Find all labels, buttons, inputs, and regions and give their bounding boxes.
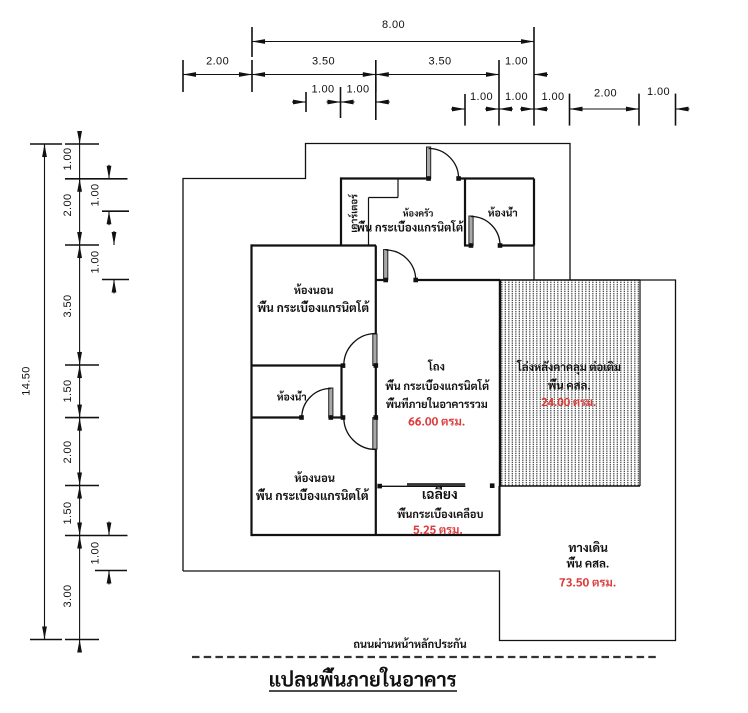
bath1 door latch dot — [498, 243, 503, 248]
hall west wall upper — [375, 246, 377, 335]
bedroom2 door swing — [344, 418, 376, 450]
kitchen entry door leaf — [427, 147, 431, 179]
dimension row 8.00 — [252, 41, 534, 43]
svg-text:1.00: 1.00 — [647, 86, 670, 98]
bath1 east wall — [533, 179, 535, 246]
text: kitchen floor label — [357, 220, 464, 232]
west exterior wall — [250, 244, 252, 536]
text: porch roof value — [542, 398, 596, 406]
bath2 door hinge dot — [329, 415, 334, 420]
bedroom1 door swing — [344, 334, 376, 366]
text: hall area label — [386, 397, 487, 408]
outer walkway boundary top-left — [183, 144, 570, 572]
bath2 door latch dot — [299, 415, 304, 420]
counter edge horizontal — [369, 197, 399, 199]
kitchen/bath1 divider wall — [464, 179, 466, 246]
text: hall label — [428, 359, 445, 370]
text: bedroom1 label — [294, 283, 333, 294]
bath2 door leaf — [329, 388, 333, 418]
text: hall floor label — [386, 379, 490, 390]
kitchen entry door swing — [429, 149, 459, 179]
bedroom1 door leaf — [373, 334, 377, 366]
svg-text:1.50: 1.50 — [62, 501, 74, 524]
text: counter label — [348, 194, 358, 232]
svg-text:14.50: 14.50 — [20, 366, 32, 396]
svg-text:2.00: 2.00 — [62, 193, 74, 216]
terrace east wall — [498, 486, 500, 536]
svg-text:2.00: 2.00 — [594, 88, 617, 100]
hall west wall lower — [375, 449, 377, 536]
outer walkway boundary right/bottom — [183, 280, 676, 641]
svg-text:8.00: 8.00 — [382, 19, 405, 31]
kitchen door hinge dot — [426, 176, 431, 181]
svg-text:2.00: 2.00 — [206, 56, 229, 68]
text: porch roof label — [517, 360, 621, 375]
bedroom2 door leaf — [373, 418, 377, 450]
building south wall — [252, 534, 500, 536]
east exterior line below bath1 — [533, 246, 535, 281]
text: terrace value — [413, 526, 462, 534]
mini dimension row 1.00/1.00 (top-left) — [305, 92, 307, 112]
bath1 door swing — [471, 217, 500, 246]
bedroom2 door latch dot — [341, 415, 346, 420]
bath1 south wall right — [500, 244, 534, 246]
terrace edge line — [380, 485, 466, 487]
text: bath2 label — [277, 391, 306, 401]
bedroom1 north wall — [252, 244, 377, 246]
text: bedroom1 floor label — [258, 300, 370, 312]
stippled covered extension area — [500, 280, 640, 486]
bath1 door hinge dot — [469, 243, 474, 248]
bath1 door leaf — [469, 216, 473, 246]
hall north wall right of door — [416, 279, 501, 281]
svg-text:3.00: 3.00 — [62, 584, 74, 607]
svg-text:1.00: 1.00 — [505, 91, 528, 103]
counter edge vertical right — [397, 179, 399, 198]
svg-text:1.00: 1.00 — [541, 91, 564, 103]
text: terrace label — [423, 486, 457, 499]
dimension row 1.00 x3 / 2.00 / 1.00 — [464, 94, 466, 126]
kitchen door latch dot — [456, 176, 461, 181]
left dimension chain — [79, 144, 81, 640]
text: porch roof floor label — [548, 378, 590, 389]
svg-text:3.50: 3.50 — [62, 294, 74, 317]
svg-text:1.00: 1.00 — [89, 541, 101, 564]
bedroom1 south wall — [252, 364, 344, 366]
terrace sliding bar — [407, 483, 465, 486]
text: hall area value — [409, 417, 465, 426]
text: walkway value — [560, 578, 616, 587]
svg-text:1.00: 1.00 — [346, 84, 369, 96]
bath2 south wall right — [332, 416, 344, 418]
overall height dimension 14.50 — [44, 144, 46, 640]
bath2 east wall — [340, 366, 342, 418]
hall door latch dot — [413, 278, 418, 283]
bath2 door swing — [302, 389, 331, 418]
text: plan title — [270, 667, 456, 687]
terrace edge end dot — [490, 483, 495, 488]
svg-text:1.00: 1.00 — [89, 183, 101, 206]
road dashed line — [192, 656, 658, 658]
title underline — [269, 690, 457, 692]
hall door hinge dot — [383, 278, 388, 283]
dimension row 2.00/3.50/3.50/1.00 — [183, 74, 499, 76]
hall-kitchen door leaf — [384, 250, 388, 281]
text: bedroom2 label — [295, 471, 335, 482]
svg-text:2.00: 2.00 — [62, 440, 74, 463]
terrace edge end dot — [377, 484, 382, 489]
text: walkway label — [569, 541, 608, 552]
bedroom2 door hinge dot — [374, 415, 379, 420]
left mini dimensions 1.00 — [102, 210, 129, 212]
text: road label — [354, 637, 467, 648]
hall-kitchen door swing — [386, 250, 416, 280]
svg-text:1.00: 1.00 — [470, 91, 493, 103]
text: terrace floor label — [397, 507, 483, 518]
hall north wall left of door — [376, 279, 386, 281]
bath2 south wall left — [252, 416, 302, 418]
kitchen north wall (left of door) — [341, 177, 429, 179]
text: bath1 label — [488, 207, 517, 217]
svg-text:1.00: 1.00 — [89, 250, 101, 273]
svg-text:1.00: 1.00 — [505, 56, 528, 68]
text: walkway floor label — [567, 556, 609, 567]
svg-text:3.50: 3.50 — [312, 56, 335, 68]
text: bedroom2 floor label — [256, 488, 369, 500]
svg-text:1.00: 1.00 — [311, 84, 334, 96]
svg-text:1.00: 1.00 — [62, 147, 74, 170]
bedroom1 door latch dot — [341, 363, 346, 368]
bath1 south wall left — [464, 244, 471, 246]
kitchen/bath north wall (right of door) — [459, 177, 535, 179]
svg-text:1.50: 1.50 — [62, 379, 74, 402]
text: kitchen label — [403, 208, 433, 217]
svg-text:3.50: 3.50 — [428, 56, 451, 68]
bedroom1 door hinge dot — [374, 363, 379, 368]
hall west wall middle — [375, 366, 377, 418]
kitchen west wall — [340, 177, 342, 245]
counter edge vertical — [368, 198, 370, 246]
